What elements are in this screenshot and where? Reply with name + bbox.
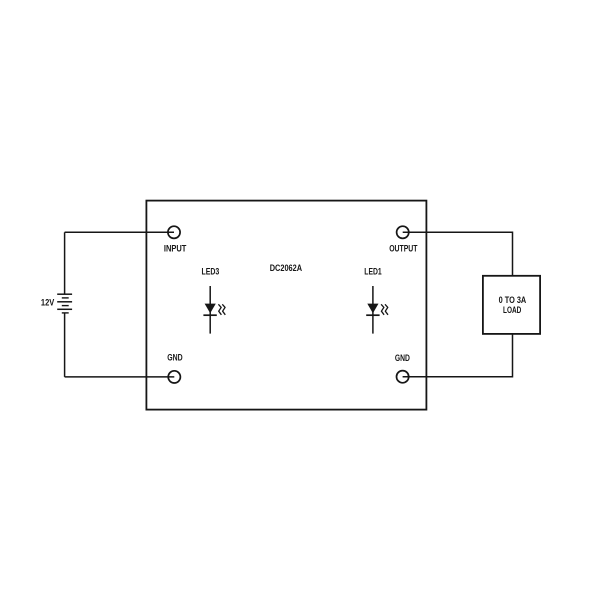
- label GND right: [395, 352, 410, 363]
- svg-text:GND: GND: [395, 352, 410, 363]
- LED3: [203, 286, 225, 334]
- label LED1: [364, 266, 381, 277]
- turret GND right: [397, 371, 409, 383]
- label LED3: [202, 266, 220, 277]
- label 12V: [41, 297, 55, 308]
- load box 0 TO 3A LOAD: [483, 276, 540, 334]
- wire battery positive to INPUT turret: [65, 231, 174, 233]
- label OUTPUT: [389, 242, 417, 253]
- turret INPUT: [168, 226, 180, 238]
- svg-text:INPUT: INPUT: [164, 242, 187, 253]
- LED1: [366, 286, 388, 334]
- label GND left: [167, 352, 183, 363]
- label DC2062A: [270, 262, 303, 273]
- svg-text:12V: 12V: [41, 297, 55, 308]
- turret GND left: [168, 371, 180, 383]
- battery V1 12V: [57, 294, 72, 313]
- wire battery positive lead vertical: [64, 232, 66, 294]
- wire battery negative to GND turret: [65, 376, 175, 378]
- wire OUTPUT turret to load top: [403, 232, 513, 275]
- svg-text:GND: GND: [167, 352, 183, 363]
- label INPUT: [164, 242, 187, 253]
- svg-text:LED3: LED3: [202, 266, 220, 277]
- turret OUTPUT: [397, 226, 409, 238]
- svg-text:OUTPUT: OUTPUT: [389, 242, 417, 253]
- svg-text:LOAD: LOAD: [503, 304, 521, 315]
- svg-text:DC2062A: DC2062A: [270, 262, 303, 273]
- wire load bottom to GND turret: [403, 334, 513, 377]
- svg-text:LED1: LED1: [364, 266, 381, 277]
- demo board DC2062A outline: [146, 201, 426, 410]
- wire battery negative lead vertical: [64, 313, 66, 377]
